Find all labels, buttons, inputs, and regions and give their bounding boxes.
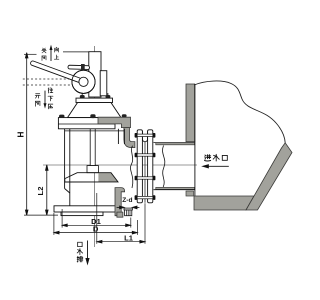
- label drain (kou-shui-pai vertical): [78, 242, 82, 246]
- valve disc gray right half: [98, 173, 118, 182]
- svg-text:D: D: [93, 224, 99, 233]
- inlet pipe top wall gray: [156, 143, 195, 145]
- label kai-fa (open valve) column: [35, 94, 40, 98]
- bonnet plate bolt left: [80, 93, 85, 98]
- inlet pipe bottom wall gray: [156, 187, 195, 189]
- svg-text:L1: L1: [124, 234, 134, 243]
- bonnet top plate: [76, 98, 113, 103]
- pipe break squiggle: [163, 146, 165, 188]
- bonnet trapezoid: [68, 103, 122, 118]
- dimension D1: [62, 209, 131, 228]
- dimension L1: [97, 193, 145, 244]
- svg-text:L2: L2: [36, 187, 45, 196]
- vertical centerline of valve: [94, 46, 96, 247]
- Z-d bolt stub threads: [125, 210, 132, 216]
- body left wall outer: [64, 129, 66, 189]
- Z-d left arrow: [117, 206, 125, 209]
- gray body outlet bottom section: [115, 188, 125, 216]
- tank wall inner face line: [194, 84, 196, 196]
- tank wall diagonal band: [246, 143, 292, 210]
- svg-text:H: H: [17, 131, 26, 137]
- body top shoulder line: [65, 130, 125, 132]
- joint bolt 1: [135, 133, 156, 138]
- label inlet (jin-shui-kou): [205, 155, 211, 161]
- tank wall strip below pipe: [186, 191, 194, 196]
- joint center line: [144, 142, 146, 203]
- pivot outer circle outline: [72, 70, 95, 93]
- label guan-fa (close valve) column: [42, 48, 46, 53]
- body top flange band: [58, 118, 115, 129]
- tank floor band: [194, 196, 254, 210]
- handle knob: [81, 64, 85, 70]
- side plate of pivot bracket: [100, 71, 107, 96]
- disc stem nut: [87, 166, 98, 173]
- inlet pipe bottom outer line: [154, 189, 195, 191]
- joint gasket U-notch: [142, 131, 147, 142]
- bottom flange raised ring: [61, 212, 103, 216]
- flange bolt dome far left: [59, 115, 65, 118]
- horizontal centerline (pipe axis): [43, 164, 197, 166]
- valve stem lower: [90, 103, 95, 166]
- dimension H top extension line: [63, 51, 92, 53]
- pivot hub circle: [79, 77, 88, 86]
- dashed lines lever horizontal position: [23, 78, 73, 80]
- stem rod: [89, 52, 101, 97]
- valve disc outline: [65, 173, 118, 182]
- dimension H line: [25, 53, 28, 216]
- body right wall inner: [117, 129, 119, 144]
- outlet break zigzag: [130, 146, 132, 188]
- dimension H bottom extension line: [24, 214, 58, 216]
- dimension H top-left extension segment: [24, 53, 37, 55]
- tank break curve: [194, 81, 285, 143]
- svg-text:Z-d: Z-d: [122, 197, 132, 204]
- up arrow (close valve): [50, 45, 53, 61]
- inlet arrow: [203, 165, 229, 168]
- joint bolt 2: [135, 153, 156, 158]
- drain arrow: [86, 241, 89, 264]
- Z-d bolt stub top bar: [124, 208, 132, 210]
- pivot outer circle: [72, 70, 95, 93]
- body left chamfer: [65, 189, 70, 194]
- T-handle bar: [68, 65, 90, 69]
- joint bolt 4: [135, 195, 156, 200]
- label xiang-shang (upward) column: [55, 47, 59, 52]
- gray bonnet flange section bar (right): [98, 117, 131, 127]
- body left wall inner: [69, 129, 71, 206]
- bottom flange band: [54, 206, 117, 212]
- gray J-hook outlet top wall: [124, 128, 135, 148]
- dimension D: [54, 213, 137, 235]
- joint bolt 3: [135, 176, 156, 181]
- Z-d right arrow: [132, 206, 139, 209]
- bolt dome on gray bar: [122, 114, 127, 117]
- flange joint left plate: [137, 130, 142, 203]
- dimension L2 line: [46, 165, 49, 215]
- label wang-xia-ya (press down) column: [48, 88, 53, 93]
- down arrow (open valve): [44, 91, 47, 109]
- tank wall upper section: [186, 84, 195, 142]
- flange joint right plate: [148, 130, 153, 203]
- inlet pipe top outer line: [154, 142, 195, 144]
- gray block under flange right: [117, 212, 123, 217]
- flange bolt dome center: [90, 114, 95, 118]
- body right wall outer: [123, 129, 125, 144]
- bonnet plate bolt right: [106, 93, 111, 98]
- lever handle bar: [30, 60, 82, 83]
